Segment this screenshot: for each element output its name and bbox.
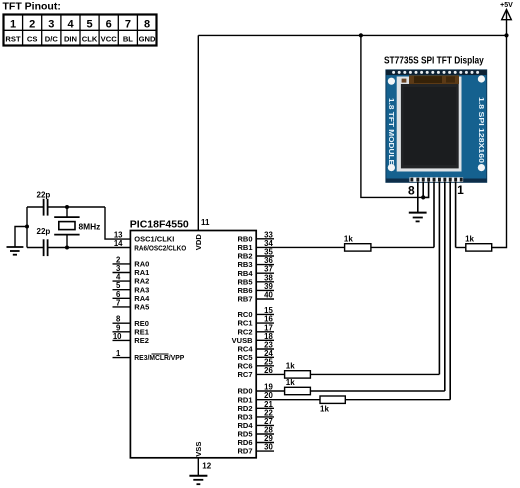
svg-text:RC1: RC1 (237, 319, 252, 328)
svg-text:22p: 22p (37, 227, 51, 236)
wire VCC pin6 (423, 182, 428, 198)
wire pin 10 (113, 339, 131, 341)
svg-text:14: 14 (114, 239, 123, 248)
svg-text:ST7735S SPI TFT Display: ST7735S SPI TFT Display (384, 56, 484, 67)
svg-text:19: 19 (264, 383, 273, 392)
display header holes top (392, 71, 479, 74)
resistor R1 1k (RB1-CLK) (344, 234, 371, 251)
display mounting holes (388, 75, 485, 171)
display screen frame (397, 77, 462, 172)
wire pin 8 (113, 322, 131, 324)
svg-text:1k: 1k (286, 361, 295, 370)
svg-text:D/C: D/C (45, 35, 59, 44)
svg-text:TFT Pinout:: TFT Pinout: (3, 1, 61, 13)
wire VSS pin (197, 458, 199, 476)
wire pin 23 (256, 348, 274, 350)
resistor R5 1k (RD1-CS) (320, 396, 345, 414)
svg-text:1: 1 (116, 349, 121, 358)
ground display (409, 213, 427, 222)
svg-text:26: 26 (264, 366, 273, 375)
node junction rail/display branch (359, 33, 363, 37)
wire pin 28 (256, 433, 274, 435)
node crystal top junction (65, 205, 69, 209)
wire VDD vertical (197, 35, 199, 230)
svg-text:5: 5 (87, 19, 93, 31)
wire pin 1 (113, 357, 131, 359)
ground crystal (7, 247, 24, 255)
svg-text:RE3/MCLR/VPP: RE3/MCLR/VPP (134, 353, 184, 362)
wire RC7 pin26 to DIN (256, 373, 284, 375)
display flex connector (402, 75, 459, 84)
table pin names row (5, 35, 156, 44)
wire pin 25 (256, 365, 274, 367)
svg-text:VDD: VDD (194, 234, 203, 251)
wire BL pin7 (422, 182, 424, 198)
display module PCB (386, 70, 487, 182)
wire pin 40 (256, 298, 274, 300)
capacitor C2 22p (37, 227, 51, 256)
wire pin 38 (256, 281, 274, 283)
wire CS pin2 (449, 182, 451, 400)
svg-text:RD0: RD0 (237, 387, 252, 396)
svg-text:GND: GND (139, 35, 156, 44)
svg-text:12: 12 (202, 461, 211, 470)
wire pin 21 (256, 407, 274, 409)
svg-text:16: 16 (264, 315, 273, 324)
svg-text:4: 4 (67, 19, 74, 31)
left pin numbers (113, 231, 123, 359)
wire pin 36 (256, 264, 274, 266)
svg-text:CLK: CLK (82, 35, 98, 44)
wire pin 3 (113, 272, 131, 274)
wire pin 24 (256, 356, 274, 358)
svg-text:8: 8 (408, 183, 415, 197)
wire pin 4 (113, 280, 131, 282)
node BL junction (421, 195, 425, 199)
wire pin 27 (256, 424, 274, 426)
svg-text:15: 15 (264, 306, 273, 315)
wire RD1 pin20 to CS (256, 399, 320, 401)
svg-text:3: 3 (48, 19, 54, 31)
svg-text:6: 6 (106, 19, 112, 31)
svg-text:CS: CS (27, 35, 38, 44)
svg-text:RST: RST (5, 35, 21, 44)
wire RB1 pin34 to CLK (256, 246, 344, 248)
left pin stubs (113, 264, 131, 358)
svg-text:40: 40 (264, 291, 273, 300)
wire pin 22 (256, 416, 274, 418)
svg-text:10: 10 (113, 332, 122, 341)
wire GND pin8 (417, 182, 419, 213)
wire crystal top net (27, 207, 130, 239)
svg-text:BL: BL (123, 35, 133, 44)
svg-text:30: 30 (264, 443, 273, 452)
resistor R4 1k (RD0-D/C) (285, 378, 311, 395)
svg-text:7: 7 (116, 298, 120, 307)
wire pin 15 (256, 313, 274, 315)
svg-text:RB7: RB7 (237, 295, 252, 304)
svg-text:7: 7 (125, 19, 131, 31)
display screen (401, 84, 459, 168)
wire +5V rail (198, 34, 506, 36)
wire D/C pin3 (444, 182, 446, 391)
svg-text:8: 8 (144, 19, 150, 31)
svg-text:1: 1 (457, 183, 464, 197)
wire pin 37 (256, 272, 274, 274)
TFT pinout table (4, 15, 157, 46)
wire pin 6 (113, 297, 131, 299)
node crystal bottom junction (65, 246, 69, 250)
svg-text:11: 11 (201, 218, 210, 227)
svg-text:1k: 1k (320, 405, 329, 414)
table pin numbers row (10, 19, 150, 31)
crystal X1 8MHz (54, 217, 100, 235)
svg-text:VSS: VSS (194, 442, 203, 457)
node caps-ground junction (25, 225, 29, 229)
wire display +5V vertical (361, 35, 423, 197)
svg-text:VUSB: VUSB (232, 336, 253, 345)
right pin names (232, 234, 254, 455)
svg-text:RC7: RC7 (237, 370, 252, 379)
svg-text:18: 18 (264, 332, 273, 341)
wire RD0 pin19 to D/C (256, 390, 284, 392)
svg-text:1k: 1k (344, 234, 353, 243)
svg-text:1.8 SPI 128X160: 1.8 SPI 128X160 (477, 97, 484, 163)
wire pin 29 (256, 442, 274, 444)
wire pin 18 (256, 339, 274, 341)
svg-text:RA5: RA5 (134, 303, 149, 312)
svg-text:22p: 22p (37, 191, 51, 200)
svg-text:1k: 1k (286, 378, 295, 387)
ground VSS (189, 476, 207, 485)
display bottom pads (410, 177, 464, 182)
svg-text:RE2: RE2 (134, 336, 149, 345)
svg-text:VCC: VCC (101, 35, 118, 44)
wire pin 17 (256, 331, 274, 333)
+5V power symbol (500, 2, 513, 35)
wire pin 33 (256, 238, 274, 240)
svg-text:PIC18F4550: PIC18F4550 (130, 218, 189, 230)
resistor R3 1k (RC7-DIN) (285, 361, 311, 378)
right pin stubs (256, 239, 274, 451)
wire CLK pin5 (433, 182, 435, 248)
svg-text:RC0: RC0 (237, 310, 252, 319)
wire caps left vertical (26, 207, 28, 248)
wire pin 5 (113, 289, 131, 291)
svg-text:RD7: RD7 (237, 447, 252, 456)
wire RST to pullup (456, 247, 466, 249)
left pin names (134, 235, 186, 363)
wire pin 16 (256, 322, 274, 324)
wire pin 35 (256, 255, 274, 257)
svg-text:2: 2 (29, 19, 35, 31)
wire pin 39 (256, 289, 274, 291)
svg-text:1: 1 (10, 19, 16, 31)
wire pin 30 (256, 450, 274, 452)
svg-text:1.8 TFT MODULE: 1.8 TFT MODULE (387, 98, 394, 165)
node junction rail/+5V (504, 33, 508, 37)
right pin numbers (264, 230, 273, 451)
wire right +5V vertical to pullup (492, 35, 507, 247)
resistor R2 1k (RST pullup) (465, 234, 492, 251)
svg-text:8MHz: 8MHz (79, 222, 101, 232)
wire DIN pin4 (438, 182, 440, 375)
wire crystal bottom net (27, 235, 130, 248)
wire ground tap (15, 227, 27, 247)
svg-text:+5V: +5V (500, 2, 513, 9)
capacitor C1 22p (37, 191, 51, 216)
wire RST pin1 (455, 182, 457, 248)
wire pin 2 (113, 263, 131, 265)
svg-text:1k: 1k (465, 234, 474, 243)
wire pin 7 (113, 306, 131, 308)
svg-text:RA6/OSC2/CLKO: RA6/OSC2/CLKO (134, 243, 186, 252)
svg-text:DIN: DIN (64, 35, 77, 44)
wire pin 9 (113, 331, 131, 333)
